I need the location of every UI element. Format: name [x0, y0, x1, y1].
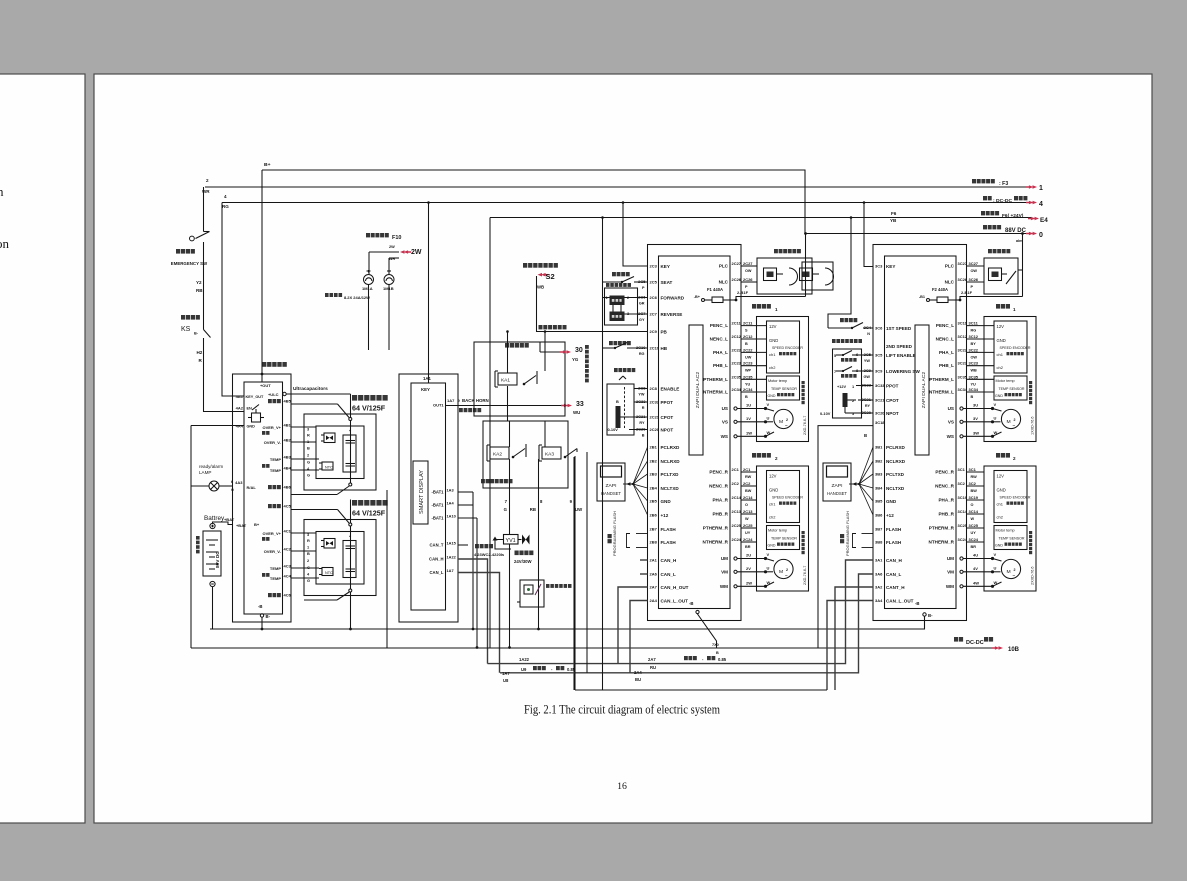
svg-text:3C20: 3C20 [875, 410, 885, 415]
svg-text:3B4: 3B4 [875, 485, 883, 490]
svg-text:S2: S2 [545, 272, 554, 281]
page number 16 [617, 781, 627, 792]
svg-text:2A7: 2A7 [649, 584, 657, 589]
svg-text:4C2: 4C2 [283, 546, 291, 551]
label Battrey [204, 515, 225, 522]
svg-text:3B8: 3B8 [875, 539, 883, 544]
ZAPI2 left pins [875, 263, 883, 268]
svg-text:3C23: 3C23 [968, 361, 978, 366]
label travel motor 1 [752, 304, 771, 309]
svg-text:V: V [766, 402, 769, 407]
svg-text:GND: GND [767, 394, 775, 398]
svg-text:0: 0 [1039, 232, 1043, 239]
svg-text:PCLRXD: PCLRXD [886, 445, 906, 450]
bank2 cap wire vertical [350, 500, 352, 524]
ultracap bank2 box [304, 520, 376, 596]
svg-text:ch1: ch1 [769, 501, 776, 506]
pin +OUT +ULC [260, 383, 271, 388]
svg-text:SPEED ENCODER: SPEED ENCODER [999, 495, 1030, 499]
svg-text:NCLRXD: NCLRXD [886, 459, 906, 464]
svg-text:GY: GY [639, 318, 645, 322]
svg-text:3B5: 3B5 [875, 498, 883, 503]
svg-text:ch2: ch2 [996, 365, 1003, 370]
pot low end [852, 411, 855, 416]
thermistor NTC bank1 [322, 462, 333, 470]
svg-text:PHA_R: PHA_R [712, 497, 728, 502]
svg-text:U: U [766, 565, 769, 570]
svg-text:2XD-76.6-7: 2XD-76.6-7 [803, 416, 807, 435]
svg-text:2C9: 2C9 [649, 329, 657, 334]
svg-text:1M1A: 1M1A [362, 286, 373, 291]
svg-text:2C25: 2C25 [731, 523, 741, 528]
svg-text:R/AL: R/AL [246, 485, 256, 490]
svg-text:UW: UW [575, 507, 583, 512]
svg-text:3C14: 3C14 [968, 509, 978, 514]
svg-text:3C34: 3C34 [968, 387, 978, 392]
label capacitor combiner [262, 362, 287, 367]
label valve type [475, 544, 493, 548]
svg-text:GW: GW [863, 375, 870, 379]
svg-text:PLC: PLC [719, 263, 729, 268]
wire B+ rail [262, 170, 805, 234]
svg-text:U: U [993, 565, 996, 570]
wires brake coils down [368, 285, 370, 351]
svg-text:SPEED ENCODER: SPEED ENCODER [772, 346, 803, 350]
svg-text:RW: RW [745, 475, 752, 479]
svg-text:NTC: NTC [325, 465, 333, 469]
svg-text:3A2: 3A2 [875, 584, 883, 589]
svg-text:33: 33 [576, 401, 584, 408]
controller ZAPI1 inner box [659, 256, 731, 609]
svg-text:3C11: 3C11 [957, 321, 967, 326]
svg-text:CAN_L_OUT: CAN_L_OUT [886, 598, 914, 603]
svg-text:PTHERM_L: PTHERM_L [703, 377, 728, 382]
svg-text:3A4: 3A4 [875, 598, 883, 603]
label from foot brake switch [523, 263, 558, 268]
brake assembly 2 box [984, 258, 1018, 294]
svg-text:7X0: 7X0 [712, 643, 719, 647]
svg-text:1A7: 1A7 [502, 671, 510, 676]
svg-text:2C27: 2C27 [731, 261, 741, 266]
motor2 phase wires [766, 559, 775, 562]
svg-text:3B2: 3B2 [875, 458, 883, 463]
wire CAN H bus twisted pair [488, 560, 874, 664]
svg-text:3W: 3W [973, 430, 979, 435]
ultracap bank2 inner box [316, 532, 364, 585]
svg-text:1A22: 1A22 [446, 554, 455, 559]
svg-text:G: G [307, 578, 310, 583]
capacitor C1 stack [343, 435, 356, 472]
svg-text:+BAT: +BAT [236, 523, 247, 528]
svg-text:2C24: 2C24 [731, 537, 741, 542]
svg-text:FLASH: FLASH [660, 527, 675, 532]
svg-text:3B6: 3B6 [875, 512, 883, 517]
svg-text:4U: 4U [973, 552, 978, 557]
svg-text:GR: GR [639, 301, 645, 305]
svg-text:2W: 2W [389, 245, 395, 249]
svg-text:1A15: 1A15 [446, 540, 456, 545]
controller ZAPI1 outer box [648, 245, 742, 621]
svg-text:BW: BW [745, 489, 752, 493]
svg-text:REVERSE: REVERSE [660, 312, 682, 317]
key switch 1st speed [840, 318, 857, 322]
svg-text:1M1B: 1M1B [383, 286, 394, 291]
svg-text:RG: RG [639, 352, 645, 356]
svg-text:M: M [779, 569, 783, 575]
svg-text:F6( +24V): F6( +24V) [1002, 213, 1024, 219]
svg-text:PENC_R: PENC_R [935, 469, 954, 474]
svg-text:OVER_V-: OVER_V- [264, 549, 282, 554]
svg-text:WM: WM [720, 584, 728, 589]
svg-text:2: 2 [307, 558, 309, 563]
svg-text:YB: YB [890, 218, 897, 223]
svg-text:E4: E4 [1040, 217, 1048, 224]
svg-text:B+: B+ [264, 162, 271, 168]
svg-text:RW: RW [970, 475, 977, 479]
svg-text:4B1: 4B1 [283, 422, 291, 427]
svg-text:U: U [766, 415, 769, 420]
svg-text:3C25: 3C25 [968, 523, 978, 528]
svg-text:3C1: 3C1 [968, 467, 976, 472]
svg-text:RB: RB [196, 288, 203, 293]
left page sliver [0, 74, 85, 823]
battery negative terminal [210, 581, 215, 586]
svg-text:3C14: 3C14 [957, 509, 967, 514]
pump motor M3 symbol [1001, 409, 1020, 428]
svg-text:OW: OW [970, 269, 977, 273]
bank1 top switch [291, 403, 338, 405]
svg-text:NENC_R: NENC_R [709, 483, 729, 488]
svg-text:1ST SPEED: 1ST SPEED [886, 326, 912, 331]
svg-text:3C22: 3C22 [968, 347, 978, 352]
svg-text:FLASH: FLASH [886, 527, 901, 532]
wire battery - down to bus [212, 587, 214, 629]
svg-text:OW: OW [745, 269, 752, 273]
svg-text:RU: RU [650, 665, 656, 670]
svg-text:3C25: 3C25 [957, 523, 967, 528]
svg-text:3C6: 3C6 [875, 325, 883, 330]
bank1 cap wire vertical [350, 394, 352, 418]
pump motor M4 symbol [1001, 559, 1020, 578]
12V pot feed [837, 384, 847, 389]
label emergency switch [176, 249, 195, 254]
wires combiner to cap bank2 [291, 532, 316, 534]
pin 4A2 EN [236, 405, 244, 410]
wire ZAPI2 B- to bus1 [924, 616, 926, 629]
svg-text:PROGRAMMING FLASH: PROGRAMMING FLASH [612, 511, 617, 556]
svg-text:4C5: 4C5 [283, 503, 291, 508]
label H2 R [196, 350, 202, 355]
wire B- down to bus1 [261, 617, 263, 629]
svg-text:ch2: ch2 [996, 514, 1003, 519]
svg-text:on: on [0, 236, 9, 251]
svg-text:KEY_OUT: KEY_OUT [245, 395, 264, 399]
svg-text:PCLTXD: PCLTXD [660, 472, 679, 477]
wire horn 30 output [540, 351, 565, 353]
svg-text:3C12: 3C12 [968, 334, 978, 339]
wire emergency switch to KS [203, 242, 205, 328]
svg-text:PHB_L: PHB_L [713, 363, 728, 368]
svg-text:2C2: 2C2 [731, 481, 739, 486]
svg-text:2A4: 2A4 [649, 598, 657, 603]
svg-text:12V: 12V [769, 473, 777, 478]
label to DC-DC controller [983, 196, 992, 200]
battery positive terminal [210, 523, 215, 528]
wire S2 to PB pin [537, 276, 648, 332]
ZAPI1 motor2 phase pins [721, 556, 728, 561]
svg-text:10B: 10B [1008, 647, 1020, 653]
pump motor1 temp box [994, 376, 1027, 400]
svg-text:TEMP SENSOR: TEMP SENSOR [998, 387, 1024, 391]
svg-text:WP: WP [745, 369, 752, 373]
reverse contactor block [610, 312, 625, 322]
svg-text:B+: B+ [254, 522, 260, 527]
svg-text:CANT_H: CANT_H [886, 585, 905, 590]
svg-text:1A7: 1A7 [447, 398, 455, 403]
svg-text:OVER_V-: OVER_V- [264, 440, 282, 445]
svg-text:YU: YU [745, 382, 751, 386]
svg-text:3C11: 3C11 [968, 321, 978, 326]
svg-text:SPEED ENCODER: SPEED ENCODER [772, 495, 803, 499]
svg-text:1A3: 1A3 [446, 487, 454, 492]
svg-text:12V: 12V [996, 473, 1004, 478]
svg-text:2C13: 2C13 [743, 509, 753, 514]
contact brake 2 [1006, 271, 1016, 284]
svg-text:3C34: 3C34 [957, 387, 967, 392]
svg-text:BU: BU [635, 677, 641, 682]
svg-text:B: B [745, 342, 748, 346]
svg-text:3B1: 3B1 [875, 444, 883, 449]
svg-text:4A2: 4A2 [236, 405, 244, 410]
svg-text:M: M [1006, 419, 1010, 425]
svg-text:4W: 4W [973, 580, 979, 585]
svg-text:3C24: 3C24 [968, 537, 978, 542]
svg-text:12V: 12V [996, 324, 1004, 329]
lamp box lower stub [517, 601, 520, 603]
fuse F2 [932, 287, 948, 292]
svg-text:3U: 3U [973, 402, 978, 407]
svg-text:W: W [970, 517, 974, 521]
svg-text:: F3: : F3 [999, 181, 1008, 187]
ZAPI1 motor1 phase pins [722, 406, 728, 411]
svg-text:ENABLE: ENABLE [660, 386, 679, 391]
ZAPI1 right pins PLC NLC [719, 263, 729, 268]
svg-text:Motor temp: Motor temp [995, 528, 1014, 532]
label fuse box 88V DC [983, 225, 1001, 229]
svg-text:2-B1F: 2-B1F [737, 290, 749, 295]
svg-text:O: O [970, 503, 973, 507]
svg-text:TEMP SENSOR: TEMP SENSOR [771, 536, 797, 540]
svg-text:V: V [993, 402, 996, 407]
svg-text:PCLTXD: PCLTXD [886, 472, 905, 477]
svg-text:KS: KS [181, 326, 191, 333]
svg-text:SEAT: SEAT [660, 280, 672, 285]
svg-text:TEMP: TEMP [270, 566, 281, 571]
svg-text:3C19: 3C19 [968, 495, 978, 500]
svg-text:0-10V: 0-10V [607, 427, 618, 432]
svg-text:2C2: 2C2 [743, 481, 751, 486]
wire CAN_H_OUT ZAPI1 to bus [618, 587, 648, 664]
fuse F1 [707, 287, 723, 292]
label to brake lamp/horn rotated [585, 345, 589, 382]
svg-text:H2: H2 [196, 350, 202, 355]
svg-text:2C35: 2C35 [731, 374, 741, 379]
svg-text:3C33: 3C33 [875, 383, 885, 388]
wire fuse F1 to brake1 [736, 297, 806, 301]
svg-text:NTHERM_L: NTHERM_L [929, 389, 954, 394]
svg-text:3C22: 3C22 [957, 347, 967, 352]
svg-text:ready/alarm: ready/alarm [199, 464, 223, 469]
svg-text:+12V: +12V [837, 384, 847, 389]
svg-text:NENC_L: NENC_L [710, 336, 729, 341]
ZAPI2 right pins PLC NLC [945, 263, 955, 268]
svg-text:ch2: ch2 [769, 365, 776, 370]
svg-text:2B3: 2B3 [649, 471, 657, 476]
svg-text:2B4: 2B4 [649, 485, 657, 490]
svg-text:F2 440A: F2 440A [932, 287, 948, 292]
lowering generator control box [483, 421, 568, 488]
main page [94, 74, 1152, 823]
svg-text:V: V [993, 552, 996, 557]
svg-text:GND: GND [886, 499, 897, 504]
svg-text:G: G [307, 472, 310, 477]
svg-text:1V: 1V [746, 416, 751, 421]
wire brake1 vertical [805, 234, 807, 297]
svg-text:2C12: 2C12 [731, 334, 741, 339]
svg-text:1: 1 [1039, 185, 1043, 192]
svg-text:3C5: 3C5 [875, 352, 883, 357]
svg-text:3C18: 3C18 [875, 420, 885, 425]
svg-text:TEMP: TEMP [270, 576, 281, 581]
motor2 temp sensor box [767, 526, 800, 550]
svg-text:TEMP: TEMP [270, 457, 281, 462]
svg-text:2C34: 2C34 [743, 387, 753, 392]
svg-text:Y2: Y2 [196, 280, 202, 285]
svg-text:VM: VM [721, 569, 728, 574]
motor M1 symbol [774, 409, 793, 428]
label Y2 RB [196, 280, 202, 285]
svg-text:N: N [867, 332, 870, 336]
svg-text:4B6: 4B6 [283, 484, 291, 489]
svg-text:KEY: KEY [660, 264, 669, 269]
brake assembly 1 outer box [757, 258, 812, 294]
svg-text:3C21: 3C21 [875, 397, 885, 402]
svg-text:1A1: 1A1 [423, 376, 431, 381]
brake coil 1M1A [368, 252, 370, 274]
svg-text:CAN_L: CAN_L [886, 572, 901, 577]
svg-text:G: G [307, 565, 310, 570]
brake EMC module 1a [764, 268, 777, 281]
wire rail +24V to terminal E4 [490, 217, 1032, 219]
svg-text:NCLRXD: NCLRXD [660, 459, 680, 464]
svg-text:NENC_L: NENC_L [936, 336, 955, 341]
enclosure wire left section [190, 426, 192, 649]
svg-text:64 V/125F: 64 V/125F [352, 508, 386, 517]
svg-text:UW: UW [745, 355, 752, 359]
svg-text:CAN_H: CAN_H [660, 558, 676, 563]
svg-text:ZAPI: ZAPI [605, 483, 616, 489]
svg-text:KA2: KA2 [493, 451, 502, 457]
wire bus5 bottom [575, 689, 827, 691]
bank2 bottom switch [349, 589, 352, 592]
svg-text:WB: WB [970, 369, 977, 373]
svg-text:Motor temp: Motor temp [768, 379, 787, 383]
motor2 type label rotated [803, 566, 807, 585]
wire drop rail D to speed switches [850, 216, 853, 219]
svg-text:3V: 3V [973, 416, 978, 421]
svg-text:GND: GND [767, 543, 775, 547]
svg-text:SPEED ENCODER: SPEED ENCODER [999, 346, 1030, 350]
svg-text:2C14: 2C14 [743, 495, 753, 500]
svg-text:2ND SPEED: 2ND SPEED [886, 344, 913, 349]
svg-text:3C12: 3C12 [957, 334, 967, 339]
svg-text:2: 2 [1013, 418, 1015, 422]
wire fuse F2 to brake2 [960, 297, 1023, 301]
ZAPI1 left pins [649, 263, 657, 268]
svg-text:4B5: 4B5 [283, 398, 291, 403]
svg-text:PHB_R: PHB_R [938, 511, 954, 516]
svg-text:30: 30 [575, 347, 583, 354]
svg-text:CPOT: CPOT [886, 398, 899, 403]
wire drop to smart display KEY [427, 201, 430, 204]
svg-text:3A1: 3A1 [875, 557, 883, 562]
svg-text:GND: GND [996, 487, 1005, 492]
svg-text:RG: RG [970, 329, 976, 333]
svg-text:G: G [307, 459, 310, 464]
handset1 fan wires [623, 483, 633, 485]
svg-text:4B2: 4B2 [283, 437, 291, 442]
wire handbrake drop [576, 449, 578, 453]
forward contactor block [610, 296, 625, 306]
label ready/alarm lamp [199, 464, 223, 469]
svg-text:4B4: 4B4 [283, 465, 291, 470]
handset2 fan wires [849, 483, 859, 485]
brake EMC module 1b [800, 268, 813, 281]
svg-text:R: R [307, 432, 310, 437]
node 4 RG [224, 194, 227, 199]
svg-text:8.2X 24A/12W: 8.2X 24A/12W [344, 295, 370, 300]
svg-text:TEMP SENSOR: TEMP SENSOR [998, 536, 1024, 540]
handset1 programming flash label [608, 534, 612, 543]
pin 4A4 GND [236, 423, 244, 428]
svg-text:2C24: 2C24 [743, 537, 753, 542]
svg-text:PLC: PLC [945, 263, 955, 268]
smart display KEY pin [421, 387, 430, 392]
handbrake switch [609, 341, 631, 345]
svg-text:U9: U9 [521, 667, 527, 672]
svg-text:2C5: 2C5 [649, 279, 657, 284]
wire WR rail to terminal 1 [205, 186, 1029, 188]
svg-text:-B1: -B1 [919, 295, 925, 299]
svg-text:GND: GND [995, 394, 1003, 398]
svg-text:PENC_R: PENC_R [709, 469, 728, 474]
node ULC circle [283, 392, 286, 395]
svg-text:RY: RY [639, 421, 645, 425]
relay coil in combiner [252, 413, 261, 422]
label travel motor 2 [752, 453, 771, 458]
svg-text:4A3: 4A3 [235, 480, 243, 485]
label Ultracapacitors [293, 386, 328, 392]
ZAPI1 B- terminal [689, 601, 694, 606]
svg-text:US: US [722, 406, 728, 411]
label F6 YB wire code [891, 211, 897, 216]
wires into horn box [507, 332, 509, 374]
svg-text:2B8: 2B8 [649, 539, 657, 544]
ZAPI2 pump motor1 phase pins [948, 406, 954, 411]
relay KA2 [490, 447, 509, 459]
label 2A7 RU twisted pair [648, 657, 656, 662]
smart display inner box [411, 383, 446, 610]
